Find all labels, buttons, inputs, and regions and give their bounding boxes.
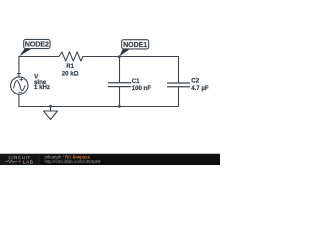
svg-text:R1: R1 [66, 63, 74, 70]
svg-text:4.7 µF: 4.7 µF [191, 85, 209, 92]
svg-text:LAB: LAB [23, 159, 33, 165]
svg-text:100 nF: 100 nF [132, 85, 152, 92]
svg-text:C2: C2 [191, 78, 199, 85]
svg-text:1 kHz: 1 kHz [34, 84, 50, 91]
svg-text:20 kΩ: 20 kΩ [62, 70, 79, 77]
svg-text:NODE2: NODE2 [25, 42, 49, 49]
svg-text:http://circuitlab.com/c463p58: http://circuitlab.com/c463p58 [45, 159, 101, 164]
svg-text:NODE1: NODE1 [123, 42, 147, 49]
svg-text:C1: C1 [132, 78, 140, 85]
